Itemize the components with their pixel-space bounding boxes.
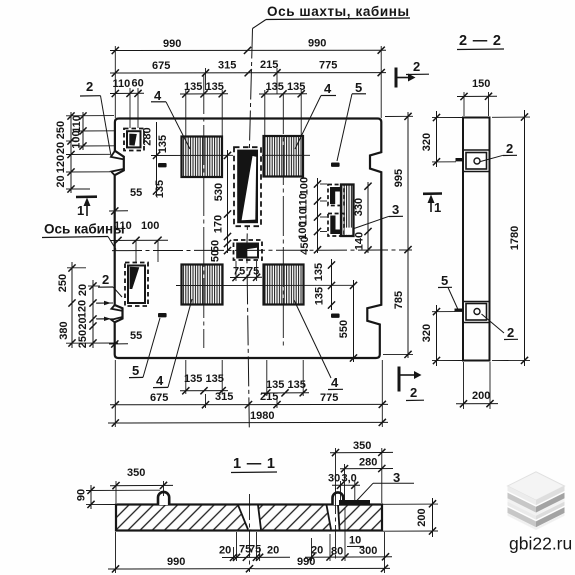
svg-text:5: 5 (132, 363, 139, 378)
svg-text:3: 3 (392, 202, 399, 217)
extension verticals top (115, 46, 381, 136)
svg-text:135: 135 (184, 373, 202, 385)
label 5 top-right with leader (337, 80, 366, 161)
svg-text:1: 1 (77, 203, 84, 218)
section marker 1 left (76, 197, 97, 218)
section 1-1 slab body with hatch (116, 505, 382, 531)
bottom dim row 990|990 (108, 532, 390, 573)
svg-text:135: 135 (206, 373, 224, 385)
svg-text:60: 60 (132, 78, 144, 90)
svg-text:120: 120 (55, 155, 67, 173)
section 2-2 title (457, 33, 504, 50)
svg-text:990: 990 (308, 38, 326, 50)
logo plate 2 sides (508, 502, 537, 520)
dim 135|135 top-left (180, 81, 228, 98)
svg-text:675: 675 (150, 392, 168, 404)
svg-text:280: 280 (142, 127, 154, 145)
title: shaft axis label (253, 4, 411, 29)
column axis V1 (203, 74, 205, 348)
dim 110|60 (110, 78, 144, 98)
label 2 bottom-left with leader (98, 272, 122, 297)
svg-text:775: 775 (320, 392, 338, 404)
svg-text:110: 110 (113, 78, 131, 90)
dim row 675|315|215|775 (110, 59, 386, 77)
svg-text:140: 140 (354, 232, 366, 250)
label 2 section top (481, 141, 518, 162)
fixture mark 5 (bottom-left) (158, 313, 167, 317)
svg-text:20: 20 (311, 545, 323, 557)
svg-text:785: 785 (393, 291, 405, 309)
svg-text:135: 135 (287, 81, 305, 93)
lifting loop left (158, 492, 169, 505)
svg-text:320: 320 (421, 133, 433, 151)
svg-text:250: 250 (55, 121, 67, 139)
dim 200 bottom of section (456, 362, 498, 409)
svg-text:120: 120 (77, 300, 89, 318)
svg-text:2: 2 (507, 325, 514, 340)
dim row 1980 (108, 410, 388, 427)
svg-text:990: 990 (167, 556, 185, 568)
dim 150 top of section (457, 78, 497, 116)
section marker 2 top-right (396, 59, 429, 88)
svg-text:135: 135 (288, 379, 306, 391)
right cluster: dim 280 (340, 457, 393, 501)
dim 1780 right of section (492, 110, 530, 366)
svg-text:20: 20 (267, 545, 279, 557)
section marker 2 bottom-right (399, 367, 424, 401)
chain 135/135 bottom-right (313, 259, 335, 310)
svg-text:280: 280 (359, 457, 377, 469)
svg-text:2: 2 (410, 385, 417, 400)
section 2-2 top joint (456, 150, 490, 172)
svg-text:20: 20 (219, 545, 231, 557)
fixture mark 5 (top-right) (331, 163, 340, 167)
label 5 bottom with leader (129, 318, 160, 378)
dim 350 left (110, 467, 173, 503)
label 5 section with leader (438, 273, 458, 310)
outer chain line (55, 112, 75, 193)
svg-text:50: 50 (210, 250, 222, 262)
row centerline through bottom hatch rects (176, 284, 354, 286)
dim 135|135 bottom-right (261, 379, 309, 397)
svg-text:1780: 1780 (509, 226, 521, 250)
hatched rect R1 (182, 137, 223, 178)
svg-text:Ось шахты, кабины: Ось шахты, кабины (267, 4, 409, 19)
svg-text:320: 320 (421, 324, 433, 342)
extension verticals bottom (115, 360, 382, 427)
svg-text:250: 250 (77, 330, 89, 348)
svg-text:135: 135 (154, 180, 166, 198)
right cluster: dim 350 (330, 440, 393, 503)
svg-text:3: 3 (393, 470, 400, 485)
svg-text:55: 55 (130, 330, 142, 342)
dim 90 left (76, 485, 161, 509)
svg-text:250: 250 (57, 274, 69, 292)
inner chain line (71, 112, 87, 150)
dim 200 right of section 1-1 (383, 498, 438, 537)
label 3 with leader (354, 202, 403, 229)
column axis V2 (282, 94, 284, 348)
hatched rect R4 (264, 265, 304, 305)
logo plate 1 top face (508, 472, 565, 500)
label 4 top-left with leader (151, 88, 190, 149)
dim 75|75 under item C (230, 261, 262, 281)
svg-text:330: 330 (353, 198, 365, 216)
label 2 section bottom (482, 314, 519, 340)
svg-text:995: 995 (393, 169, 405, 187)
svg-text:2 — 2: 2 — 2 (459, 33, 502, 49)
embed item C (center) (234, 240, 263, 260)
svg-text:135: 135 (206, 81, 224, 93)
center vertical axis of plan (247, 29, 253, 429)
fixture mark 5 (top-left) (158, 163, 167, 167)
svg-text:2: 2 (102, 272, 109, 287)
embed item A (top-left) (124, 129, 144, 151)
dim row 675|315|215|775 bottom (110, 391, 388, 408)
logo plate 3 top sliver + sides (508, 513, 565, 530)
central opening: dashed contour (234, 147, 261, 226)
svg-text:2: 2 (506, 141, 513, 156)
svg-text:350: 350 (127, 467, 145, 479)
svg-text:20: 20 (55, 142, 67, 154)
svg-text:315: 315 (218, 60, 236, 72)
svg-text:4: 4 (324, 81, 332, 96)
svg-text:135: 135 (184, 81, 202, 93)
svg-text:135: 135 (157, 135, 169, 153)
svg-text:5: 5 (355, 80, 362, 95)
axis through left funnel (249, 494, 251, 572)
funnel opening left (238, 505, 261, 530)
svg-text:4: 4 (156, 373, 164, 388)
svg-text:20: 20 (77, 317, 89, 329)
horizontal cabin axis through plan (112, 249, 412, 252)
svg-text:4: 4 (154, 88, 162, 103)
left edge notch step top (111, 151, 124, 175)
logo separator 2 (508, 507, 537, 527)
dim 55 top with tick (109, 187, 142, 215)
svg-text:135: 135 (266, 379, 284, 391)
axis through right funnel (335, 488, 337, 560)
svg-text:5: 5 (441, 273, 448, 288)
section marker 1 right (423, 194, 442, 216)
central opening: body (237, 150, 258, 224)
svg-text:20: 20 (55, 175, 67, 187)
svg-text:100: 100 (141, 220, 159, 232)
left edge notch step bottom (111, 305, 122, 322)
svg-text:80: 80 (331, 546, 343, 558)
left extension lines bottom (66, 268, 118, 343)
svg-text:170: 170 (213, 215, 225, 233)
svg-text:55: 55 (130, 187, 142, 199)
hatched rect R2 (264, 136, 304, 177)
svg-text:4: 4 (331, 375, 339, 390)
central vertical chain 530/170/50/50 (210, 150, 232, 262)
fixture mark 5 (bottom-right) (331, 314, 340, 318)
dim row 990|990 (110, 38, 386, 55)
svg-text:990: 990 (163, 38, 181, 50)
svg-text:75: 75 (247, 266, 259, 278)
svg-text:30: 30 (328, 473, 340, 485)
label 3 with leader (section 1-1) (355, 470, 414, 503)
logo separator 1 (508, 493, 537, 513)
logo plate 2 top sliver (508, 498, 565, 515)
right cluster: dims 30 30 (328, 473, 360, 502)
svg-text:200: 200 (416, 508, 428, 526)
svg-text:2: 2 (413, 59, 420, 74)
dim 320 top-left of section (421, 111, 462, 167)
svg-text:215: 215 (260, 391, 278, 403)
dim 135|135 top-right (259, 81, 307, 98)
dim 55 bottom with tick (109, 330, 142, 348)
section 2-2 body (463, 118, 490, 361)
svg-text:215: 215 (260, 59, 278, 71)
section 2-2 bottom joint (455, 302, 490, 323)
svg-text:675: 675 (152, 60, 170, 72)
svg-text:300: 300 (359, 545, 377, 557)
logo gap 2 (508, 506, 565, 522)
right-mid chain 100/110/110/100/450 (297, 177, 321, 255)
row centerline through top hatch rects (151, 154, 233, 156)
chain near R1: 135/135 rotated (153, 122, 169, 198)
svg-text:350: 350 (353, 440, 371, 452)
svg-text:100: 100 (299, 177, 311, 195)
plan slab outline (115, 119, 382, 359)
hatched rect R3 (182, 265, 223, 305)
svg-text:380: 380 (58, 321, 70, 339)
label 4 bottom-right with leader (294, 300, 343, 390)
chain 140 (353, 182, 372, 253)
embed item B (bottom-left) (125, 263, 148, 307)
svg-text:1 — 1: 1 — 1 (233, 456, 276, 472)
svg-text:75: 75 (233, 266, 245, 278)
small arrows on 120 segment (96, 303, 109, 319)
svg-text:775: 775 (319, 60, 337, 72)
svg-text:200: 200 (472, 390, 490, 402)
svg-text:gbi22.ru: gbi22.ru (509, 534, 572, 554)
svg-text:2: 2 (86, 79, 93, 94)
svg-text:90: 90 (76, 489, 88, 501)
svg-text:135: 135 (314, 287, 326, 305)
chain 550 (338, 280, 357, 362)
cabin axis label (42, 222, 125, 250)
section 1-1 title (231, 456, 277, 473)
svg-text:150: 150 (472, 78, 490, 90)
bottom small dims 20/80/10/300 right (305, 508, 392, 561)
bottom small dims 20/75/75/20 (219, 532, 290, 561)
svg-text:990: 990 (297, 556, 315, 568)
embed assembly item 3 (two anchors + hatched plate) (328, 185, 354, 237)
svg-text:315: 315 (215, 391, 233, 403)
label 2 top-left with leader (80, 79, 111, 156)
label 4 top-right with leader (295, 81, 336, 149)
svg-text:1: 1 (434, 200, 441, 215)
svg-text:Ось кабины: Ось кабины (44, 222, 125, 237)
left extension lines top (66, 116, 114, 189)
logo gap 1 (508, 491, 565, 507)
dim 320 bottom-left of section (421, 305, 462, 366)
dim 135|135 bottom-left (180, 373, 228, 394)
svg-text:550: 550 (338, 320, 350, 338)
svg-text:530: 530 (213, 183, 225, 201)
svg-text:1980: 1980 (250, 410, 274, 422)
svg-text:135: 135 (266, 81, 284, 93)
logo plate 1 sides (508, 486, 537, 505)
dim 110|100 below cabin axis label (110, 220, 168, 262)
svg-text:135: 135 (313, 263, 325, 281)
lifting loop right (333, 492, 344, 505)
embedded plate item 3 on slab top (339, 500, 370, 506)
svg-text:110: 110 (114, 220, 132, 232)
label 4 bottom-left with leader (153, 299, 192, 388)
funnel opening right (327, 505, 340, 530)
svg-text:110: 110 (71, 115, 83, 133)
svg-text:450: 450 (299, 236, 311, 254)
svg-text:20: 20 (77, 284, 89, 296)
